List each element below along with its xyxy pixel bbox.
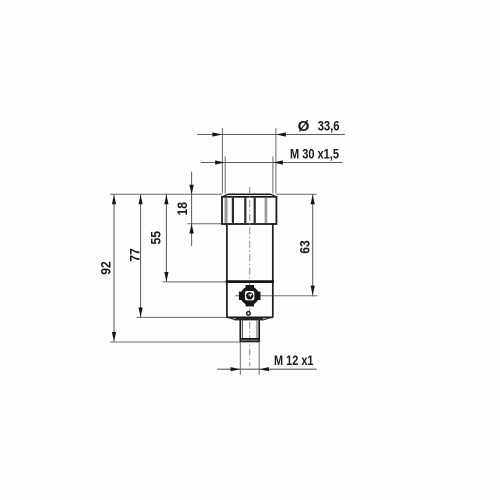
nut knurl line 1: [232, 198, 234, 223]
arrow 18 bottom (outside, pointing up): [189, 224, 193, 234]
block right side: [272, 282, 274, 318]
svg-text:M 12 x1: M 12 x1: [274, 352, 314, 368]
arrow M12 right: [259, 367, 269, 371]
svg-text:Ø: Ø: [298, 118, 310, 135]
extension line dia33.6 left: [221, 128, 223, 194]
block bottom chamfer left: [229, 317, 236, 320]
connector glint: [250, 294, 252, 296]
arrow M30 right: [273, 160, 283, 164]
svg-text:33,6: 33,6: [318, 118, 340, 134]
arrow M12 left: [231, 367, 241, 371]
extension line M30 left: [224, 156, 226, 193]
arrow 92 top: [112, 195, 116, 205]
center line horizontal (connector axis): [235, 295, 318, 297]
connector lug top: [246, 285, 254, 288]
connector lug left: [239, 292, 242, 300]
connector lug right: [258, 292, 261, 300]
block bottom chamfer right: [263, 317, 271, 320]
dimension line 92: [113, 194, 115, 342]
stud thread line right: [256, 321, 258, 339]
extension line dia33.6 right: [275, 128, 277, 194]
stud thread end line: [240, 338, 259, 340]
dimension line 18: [191, 172, 193, 246]
connector inner circle: [247, 293, 252, 298]
arrow 63 bottom: [311, 286, 315, 296]
block bottom edge: [227, 316, 273, 318]
stud thread line left: [242, 321, 244, 339]
nut body outline: [222, 197, 276, 224]
extension line M30 right: [272, 156, 274, 193]
arrow M30 left: [215, 160, 225, 164]
LED small circle: [247, 312, 251, 316]
arrow 92 bottom: [112, 332, 116, 342]
connector center dot: [248, 295, 250, 297]
connector outer ring: [242, 288, 257, 303]
stud left side: [239, 320, 241, 341]
dimension line 77: [140, 194, 142, 317]
nut top face: [228, 193, 271, 195]
stud bottom edge: [240, 340, 260, 342]
dimension line 55: [165, 194, 167, 282]
extension line M12 left: [239, 342, 241, 375]
extension line M12 right: [258, 342, 260, 375]
dimension line dia 33,6: [197, 134, 345, 136]
block left side: [226, 282, 228, 318]
extension line top plane right: [276, 193, 316, 195]
nut knurl grey band right: [265, 198, 268, 223]
arrow dia33.6 right: [276, 132, 286, 136]
arrow dia33.6 left: [212, 132, 222, 136]
extension line block bottom (77): [137, 316, 227, 318]
dimension line 63: [312, 194, 314, 296]
collar band: [235, 318, 263, 321]
arrow 18 top (outside, pointing down): [189, 185, 193, 195]
arrow 55 bottom: [164, 272, 168, 282]
nut knurl line 3: [254, 198, 256, 223]
center line vertical: [249, 187, 251, 367]
connector hex square: [244, 290, 255, 301]
svg-text:77: 77: [126, 248, 142, 262]
block top edge (heavy): [226, 280, 274, 283]
connector lug bottom: [246, 303, 254, 306]
arrow 77 bottom: [139, 308, 143, 318]
barrel left side: [226, 224, 228, 282]
extension line stud bottom (92): [110, 341, 259, 343]
nut chamfer left: [222, 194, 227, 197]
extension line barrel bottom (55): [162, 281, 227, 283]
arrow 63 top: [311, 195, 315, 205]
nut chamfer right: [271, 194, 276, 197]
extension line top plane left: [110, 193, 222, 195]
arrow 77 top: [139, 195, 143, 205]
dimension line M12: [217, 368, 316, 370]
dimension line M30: [201, 162, 343, 164]
svg-text:63: 63: [296, 240, 312, 254]
svg-text:92: 92: [98, 261, 114, 275]
nut knurl line 2: [244, 198, 246, 223]
svg-text:M 30 x1,5: M 30 x1,5: [290, 146, 339, 162]
stud right side: [258, 320, 260, 341]
nut knurl grey band left: [225, 198, 228, 223]
svg-text:55: 55: [148, 231, 164, 245]
barrel right side: [272, 224, 274, 282]
extension line nut bottom (18): [188, 223, 223, 225]
arrow 55 top: [164, 195, 168, 205]
svg-text:18: 18: [174, 202, 190, 216]
